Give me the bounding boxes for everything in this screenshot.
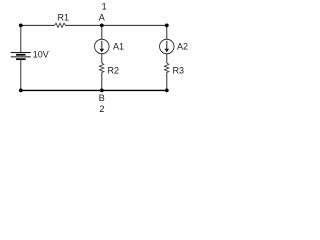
- wire: R2 to bottom: [101, 72, 103, 90]
- wire top: left corner to R1: [21, 24, 55, 26]
- wire bottom: node B net: [21, 89, 167, 91]
- svg-text:2: 2: [99, 104, 104, 115]
- node A junction dot: [100, 24, 104, 28]
- node B junction dot: [100, 89, 104, 93]
- wire: battery top lead: [20, 25, 22, 52]
- svg-text:R3: R3: [173, 65, 185, 75]
- wire top: node A junction to right corner: [102, 24, 167, 26]
- wire top: R1 to node A junction: [66, 24, 102, 26]
- svg-text:10V: 10V: [33, 49, 49, 59]
- battery V1 10V: [11, 49, 49, 60]
- svg-text:1: 1: [102, 1, 107, 11]
- svg-text:A2: A2: [177, 41, 188, 51]
- wire: right branch top lead: [166, 25, 168, 39]
- wire: middle branch top lead: [101, 25, 103, 39]
- wire: R3 to bottom: [166, 72, 168, 90]
- current source A1: [95, 39, 124, 54]
- svg-text:A1: A1: [113, 41, 124, 51]
- wire: A1 to R2: [101, 54, 103, 63]
- wire: battery bottom lead: [20, 60, 22, 90]
- svg-text:B: B: [99, 93, 105, 103]
- svg-text:R2: R2: [108, 65, 120, 75]
- resistor R2: [99, 63, 119, 75]
- resistor R3: [164, 63, 184, 75]
- svg-text:A: A: [99, 13, 105, 23]
- junction dot top-left: [19, 24, 23, 28]
- current source A2: [160, 39, 188, 54]
- wire: A2 to R3: [166, 54, 168, 63]
- svg-text:R1: R1: [58, 12, 70, 22]
- junction dot bottom-right: [165, 89, 169, 93]
- resistor R1: [55, 12, 70, 27]
- junction dot top-right: [165, 24, 169, 28]
- junction dot bottom-left: [19, 89, 23, 93]
